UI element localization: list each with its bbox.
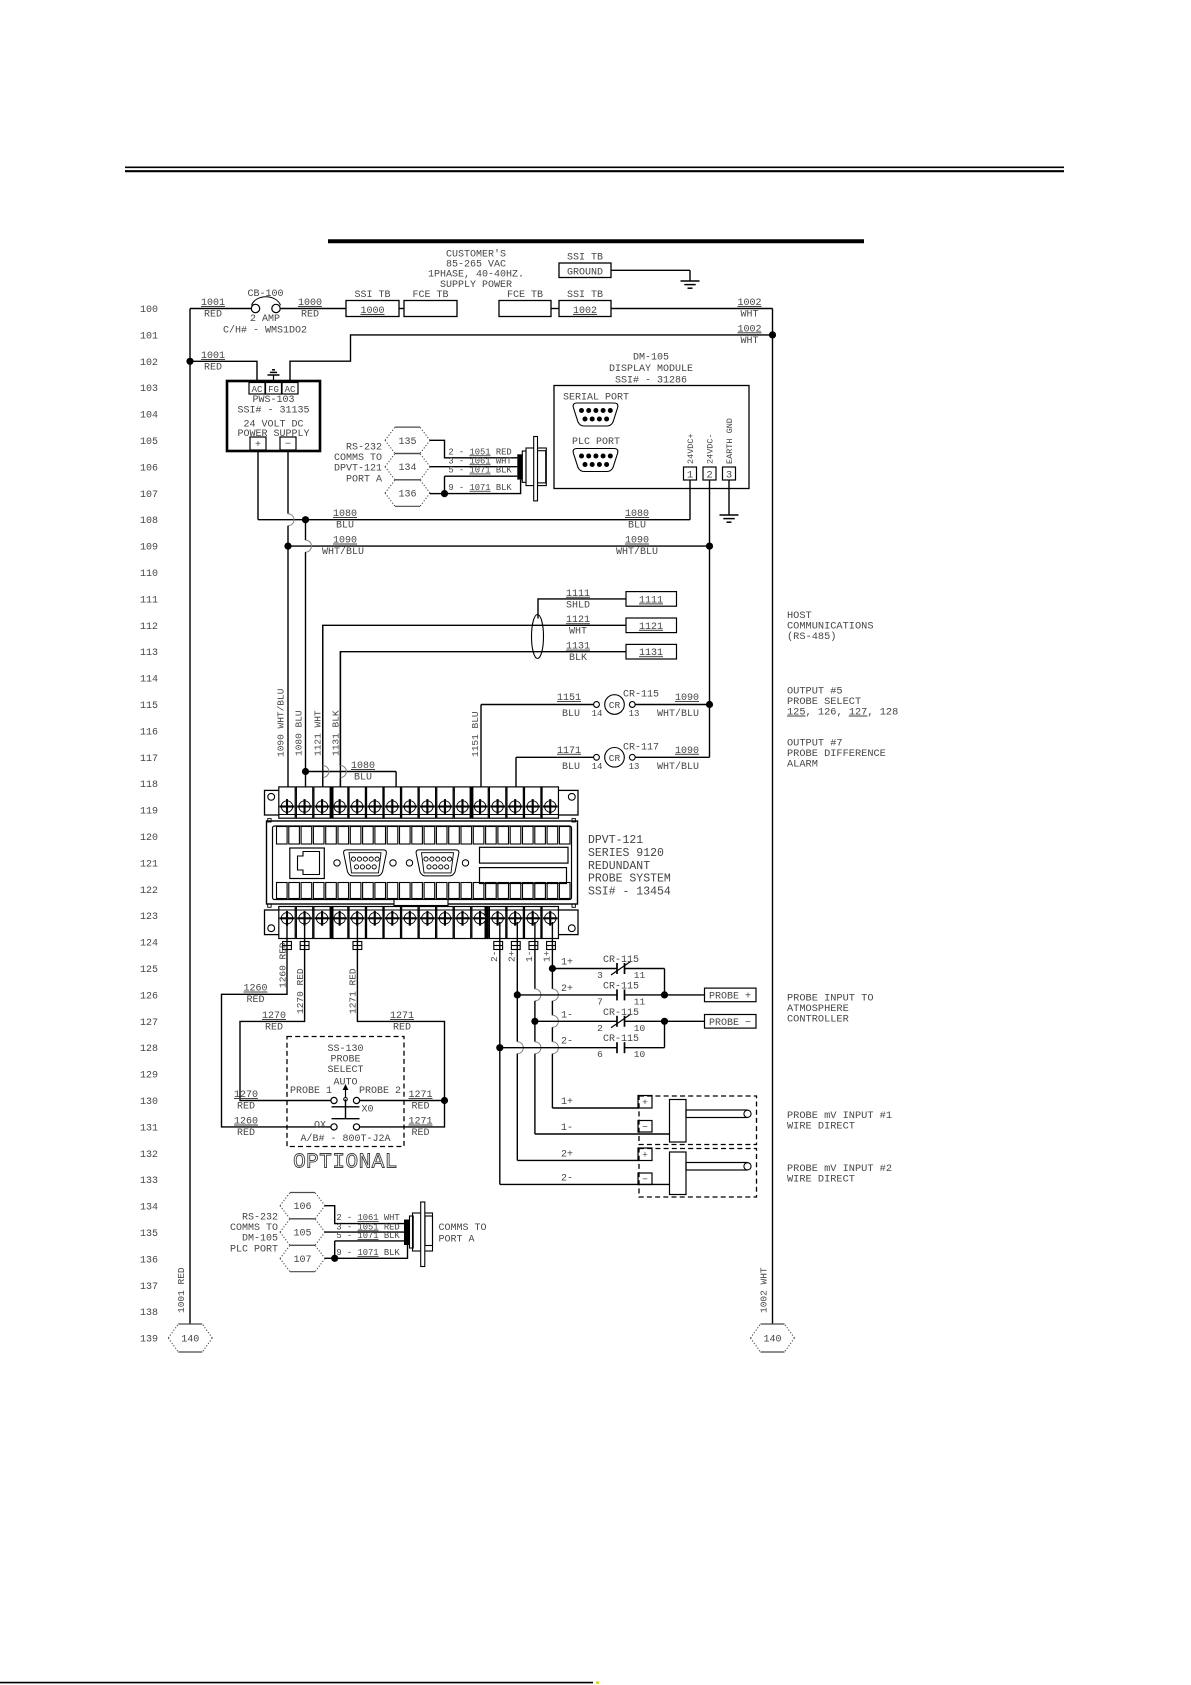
svg-text:1271: 1271	[408, 1090, 432, 1101]
svg-text:1121: 1121	[566, 615, 590, 626]
svg-text:130: 130	[140, 1097, 158, 1108]
svg-text:1+: 1+	[561, 958, 573, 969]
svg-text:CR: CR	[609, 753, 621, 764]
svg-text:RED: RED	[246, 995, 264, 1006]
svg-text:BLU: BLU	[562, 762, 580, 773]
svg-text:10: 10	[634, 1049, 646, 1060]
svg-text:CONTROLLER: CONTROLLER	[787, 1014, 849, 1026]
svg-text:COMMS TO: COMMS TO	[334, 453, 382, 464]
svg-text:BLU: BLU	[354, 773, 372, 784]
svg-text:RED: RED	[265, 1023, 283, 1034]
svg-text:14: 14	[592, 762, 603, 772]
svg-text:OX: OX	[314, 1121, 326, 1132]
svg-text:7: 7	[597, 996, 603, 1007]
svg-text:125: 125	[140, 965, 158, 976]
svg-text:1111: 1111	[566, 589, 590, 600]
svg-text:3: 3	[597, 970, 603, 981]
svg-text:1090: 1090	[333, 536, 357, 547]
svg-text:1080: 1080	[625, 509, 649, 520]
svg-text:CR-115: CR-115	[603, 1034, 639, 1045]
svg-text:113: 113	[140, 648, 158, 659]
svg-text:111: 111	[140, 595, 158, 606]
svg-text:SUPPLY POWER: SUPPLY POWER	[440, 280, 512, 291]
svg-text:RED: RED	[204, 310, 222, 321]
svg-text:136: 136	[140, 1255, 158, 1266]
svg-text:2-: 2-	[489, 951, 500, 962]
svg-text:RED: RED	[204, 363, 222, 374]
svg-text:137: 137	[140, 1282, 158, 1293]
svg-text:120: 120	[140, 833, 158, 844]
svg-text:1131: 1131	[566, 642, 590, 653]
svg-text:−: −	[642, 1122, 648, 1133]
svg-text:1002: 1002	[737, 298, 761, 309]
svg-text:140: 140	[181, 1335, 199, 1346]
svg-text:POWER SUPPLY: POWER SUPPLY	[237, 429, 309, 440]
svg-text:24VDC-: 24VDC-	[706, 433, 716, 464]
svg-text:OPTIONAL: OPTIONAL	[293, 1152, 398, 1175]
svg-text:5 - 1071 BLK: 5 - 1071 BLK	[448, 466, 512, 476]
svg-text:131: 131	[140, 1123, 158, 1134]
svg-text:102: 102	[140, 358, 158, 369]
svg-text:105: 105	[293, 1229, 311, 1240]
svg-text:1: 1	[687, 470, 693, 482]
svg-text:1151: 1151	[557, 693, 581, 704]
svg-text:PORT A: PORT A	[346, 474, 382, 485]
svg-text:1270: 1270	[262, 1011, 286, 1022]
svg-text:+: +	[255, 440, 261, 451]
svg-text:SSI TB: SSI TB	[567, 290, 603, 301]
svg-text:107: 107	[140, 490, 158, 501]
svg-text:SSI# - 31286: SSI# - 31286	[615, 375, 687, 386]
svg-text:1111: 1111	[639, 595, 663, 606]
svg-text:11: 11	[634, 970, 646, 981]
svg-text:2+: 2+	[507, 950, 518, 962]
svg-text:WHT: WHT	[569, 627, 587, 638]
svg-text:24VDC+: 24VDC+	[686, 433, 696, 464]
svg-text:1121 WHT: 1121 WHT	[313, 710, 324, 756]
svg-text:AC: AC	[285, 385, 296, 395]
svg-text:PROBE +: PROBE +	[709, 991, 751, 1002]
svg-text:100: 100	[140, 305, 158, 316]
svg-text:123: 123	[140, 912, 158, 923]
svg-text:134: 134	[140, 1203, 158, 1214]
svg-text:DM-105: DM-105	[242, 1234, 278, 1245]
svg-text:A/B# - 800T-J2A: A/B# - 800T-J2A	[300, 1133, 390, 1145]
svg-text:BLU: BLU	[628, 521, 646, 532]
svg-text:WHT: WHT	[740, 310, 758, 321]
svg-text:6: 6	[597, 1049, 603, 1060]
svg-text:9 - 1071 BLK: 9 - 1071 BLK	[336, 1248, 400, 1258]
svg-text:RED: RED	[237, 1128, 255, 1139]
svg-text:REDUNDANT: REDUNDANT	[588, 860, 650, 873]
svg-text:BLU: BLU	[562, 709, 580, 720]
svg-text:CB-100: CB-100	[247, 289, 283, 300]
svg-text:COMMS TO: COMMS TO	[439, 1223, 487, 1234]
svg-text:DM-105: DM-105	[633, 353, 669, 364]
svg-text:1090 WHT/BLU: 1090 WHT/BLU	[276, 688, 287, 757]
svg-text:WIRE DIRECT: WIRE DIRECT	[787, 1174, 855, 1186]
svg-text:1-: 1-	[561, 1010, 573, 1021]
svg-text:10: 10	[634, 1023, 646, 1034]
svg-text:5 - 1071 BLK: 5 - 1071 BLK	[336, 1231, 400, 1241]
svg-text:WHT: WHT	[740, 336, 758, 347]
svg-text:1002: 1002	[737, 324, 761, 335]
svg-text:PWS-103: PWS-103	[252, 395, 294, 406]
svg-text:127: 127	[140, 1018, 158, 1029]
svg-text:CR-115: CR-115	[603, 1008, 639, 1019]
svg-text:104: 104	[140, 411, 158, 422]
svg-text:−: −	[642, 1174, 648, 1185]
svg-text:FCE TB: FCE TB	[507, 290, 543, 301]
svg-text:2+: 2+	[561, 984, 573, 995]
svg-text:CR: CR	[609, 700, 621, 711]
svg-text:(RS-485): (RS-485)	[787, 631, 836, 643]
svg-text:129: 129	[140, 1071, 158, 1082]
svg-text:2: 2	[597, 1023, 603, 1034]
svg-text:1151 BLU: 1151 BLU	[470, 711, 481, 757]
svg-text:RED: RED	[411, 1128, 429, 1139]
svg-text:SELECT: SELECT	[327, 1065, 363, 1076]
svg-text:ALARM: ALARM	[787, 759, 818, 771]
svg-text:1131: 1131	[639, 648, 663, 659]
svg-text:118: 118	[140, 780, 158, 791]
svg-text:103: 103	[140, 384, 158, 395]
svg-text:PROBE 2: PROBE 2	[359, 1086, 401, 1097]
svg-text:1-: 1-	[524, 951, 535, 962]
svg-text:1260: 1260	[243, 984, 267, 995]
svg-text:1090: 1090	[625, 536, 649, 547]
svg-text:PROBE 1: PROBE 1	[290, 1086, 332, 1097]
svg-text:SHLD: SHLD	[566, 600, 590, 611]
svg-text:PROBE SYSTEM: PROBE SYSTEM	[588, 873, 671, 886]
svg-text:DPVT-121: DPVT-121	[334, 464, 382, 475]
svg-text:1001 RED: 1001 RED	[176, 1267, 187, 1313]
svg-text:AC: AC	[252, 385, 263, 395]
svg-text:−: −	[285, 440, 291, 451]
svg-text:114: 114	[140, 675, 158, 686]
svg-text:9 - 1071 BLK: 9 - 1071 BLK	[448, 483, 512, 493]
svg-text:13: 13	[629, 709, 640, 719]
svg-text:117: 117	[140, 754, 158, 765]
svg-text:1271 RED: 1271 RED	[348, 968, 359, 1014]
svg-text:WHT/BLU: WHT/BLU	[657, 708, 699, 720]
svg-text:132: 132	[140, 1150, 158, 1161]
svg-text:1080 BLU: 1080 BLU	[294, 710, 305, 756]
svg-text:1080: 1080	[333, 509, 357, 520]
svg-text:1002: 1002	[573, 306, 597, 317]
svg-text:110: 110	[140, 569, 158, 580]
svg-text:1270 RED: 1270 RED	[295, 968, 306, 1014]
svg-text:135: 135	[140, 1229, 158, 1240]
svg-text:+: +	[642, 1150, 648, 1161]
svg-text:135: 135	[398, 437, 416, 448]
svg-text:SSI TB: SSI TB	[354, 290, 390, 301]
svg-text:2 AMP: 2 AMP	[250, 314, 280, 325]
svg-text:WHT/BLU: WHT/BLU	[616, 546, 658, 558]
svg-text:PROBE −: PROBE −	[709, 1018, 751, 1029]
svg-text:121: 121	[140, 859, 158, 870]
svg-text:FCE TB: FCE TB	[412, 290, 448, 301]
svg-text:109: 109	[140, 543, 158, 554]
svg-text:GROUND: GROUND	[567, 268, 603, 279]
svg-text:134: 134	[398, 463, 416, 474]
svg-text:1+: 1+	[542, 950, 553, 962]
svg-text:108: 108	[140, 516, 158, 527]
svg-text:FG: FG	[268, 385, 279, 395]
svg-text:13: 13	[629, 762, 640, 772]
svg-text:WHT/BLU: WHT/BLU	[322, 546, 364, 558]
svg-text:2-: 2-	[561, 1173, 573, 1184]
svg-text:RED: RED	[301, 310, 319, 321]
svg-text:126: 126	[140, 991, 158, 1002]
svg-text:X0: X0	[362, 1105, 374, 1116]
svg-text:CR-115: CR-115	[603, 955, 639, 966]
svg-text:112: 112	[140, 622, 158, 633]
svg-text:SERIES 9120: SERIES 9120	[588, 847, 664, 860]
svg-text:2: 2	[706, 470, 712, 482]
svg-text:1080: 1080	[351, 761, 375, 772]
svg-text:1090: 1090	[675, 693, 699, 704]
svg-text:125, 126, 127, 128: 125, 126, 127, 128	[787, 707, 898, 719]
svg-text:1260 RED: 1260 RED	[278, 942, 289, 988]
svg-text:1271: 1271	[408, 1117, 432, 1128]
svg-text:PLC PORT: PLC PORT	[230, 1244, 278, 1255]
svg-text:PLC PORT: PLC PORT	[572, 437, 620, 448]
svg-text:1-: 1-	[561, 1123, 573, 1134]
svg-text:RED: RED	[237, 1102, 255, 1113]
svg-text:PORT A: PORT A	[439, 1235, 475, 1246]
svg-text:RED: RED	[393, 1023, 411, 1034]
svg-text:1002 WHT: 1002 WHT	[759, 1267, 770, 1313]
svg-text:DISPLAY MODULE: DISPLAY MODULE	[609, 364, 693, 375]
svg-text:1090: 1090	[675, 746, 699, 757]
svg-text:116: 116	[140, 727, 158, 738]
svg-text:SSI# - 13454: SSI# - 13454	[588, 886, 671, 899]
svg-text:DPVT-121: DPVT-121	[588, 834, 643, 847]
svg-text:RED: RED	[411, 1102, 429, 1113]
svg-text:SSI# - 31135: SSI# - 31135	[237, 406, 309, 417]
svg-text:106: 106	[140, 463, 158, 474]
svg-text:128: 128	[140, 1044, 158, 1055]
svg-text:1000: 1000	[360, 306, 384, 317]
svg-text:3: 3	[726, 470, 732, 482]
svg-text:2+: 2+	[561, 1149, 573, 1160]
svg-text:106: 106	[293, 1202, 311, 1213]
svg-text:140: 140	[763, 1335, 781, 1346]
svg-text:SERIAL PORT: SERIAL PORT	[563, 393, 629, 404]
svg-text:SS-130: SS-130	[327, 1044, 363, 1055]
svg-text:1271: 1271	[390, 1011, 414, 1022]
svg-text:1121: 1121	[639, 622, 663, 633]
svg-text:WHT/BLU: WHT/BLU	[657, 761, 699, 773]
svg-text:EARTH GND: EARTH GND	[725, 418, 735, 464]
svg-text:SSI TB: SSI TB	[567, 253, 603, 264]
svg-text:139: 139	[140, 1335, 158, 1346]
svg-text:COMMS TO: COMMS TO	[230, 1223, 278, 1234]
svg-text:BLK: BLK	[569, 653, 587, 664]
svg-text:WIRE DIRECT: WIRE DIRECT	[787, 1121, 855, 1133]
svg-text:115: 115	[140, 701, 158, 712]
svg-text:1+: 1+	[561, 1097, 573, 1108]
svg-text:RS-232: RS-232	[346, 443, 382, 454]
svg-text:138: 138	[140, 1308, 158, 1319]
svg-text:2-: 2-	[561, 1037, 573, 1048]
svg-text:105: 105	[140, 437, 158, 448]
svg-text:122: 122	[140, 886, 158, 897]
svg-text:CR-115: CR-115	[603, 981, 639, 992]
svg-text:107: 107	[293, 1255, 311, 1266]
svg-text:119: 119	[140, 807, 158, 818]
svg-text:1260: 1260	[234, 1117, 258, 1128]
svg-text:RS-232: RS-232	[242, 1213, 278, 1224]
svg-text:1000: 1000	[298, 298, 322, 309]
svg-text:C/H# - WMS1DO2: C/H# - WMS1DO2	[223, 325, 307, 337]
svg-text:CR-117: CR-117	[623, 742, 659, 753]
svg-text:136: 136	[398, 490, 416, 501]
svg-text:14: 14	[592, 709, 603, 719]
svg-text:1270: 1270	[234, 1090, 258, 1101]
svg-text:124: 124	[140, 939, 158, 950]
svg-text:101: 101	[140, 331, 158, 342]
svg-text:PROBE: PROBE	[330, 1055, 360, 1066]
svg-text:+: +	[642, 1097, 648, 1108]
svg-text:BLU: BLU	[336, 521, 354, 532]
svg-text:CR-115: CR-115	[623, 690, 659, 701]
svg-text:1001: 1001	[201, 298, 225, 309]
svg-text:1001: 1001	[201, 351, 225, 362]
svg-text:11: 11	[634, 996, 646, 1007]
svg-text:133: 133	[140, 1176, 158, 1187]
svg-text:1171: 1171	[557, 746, 581, 757]
